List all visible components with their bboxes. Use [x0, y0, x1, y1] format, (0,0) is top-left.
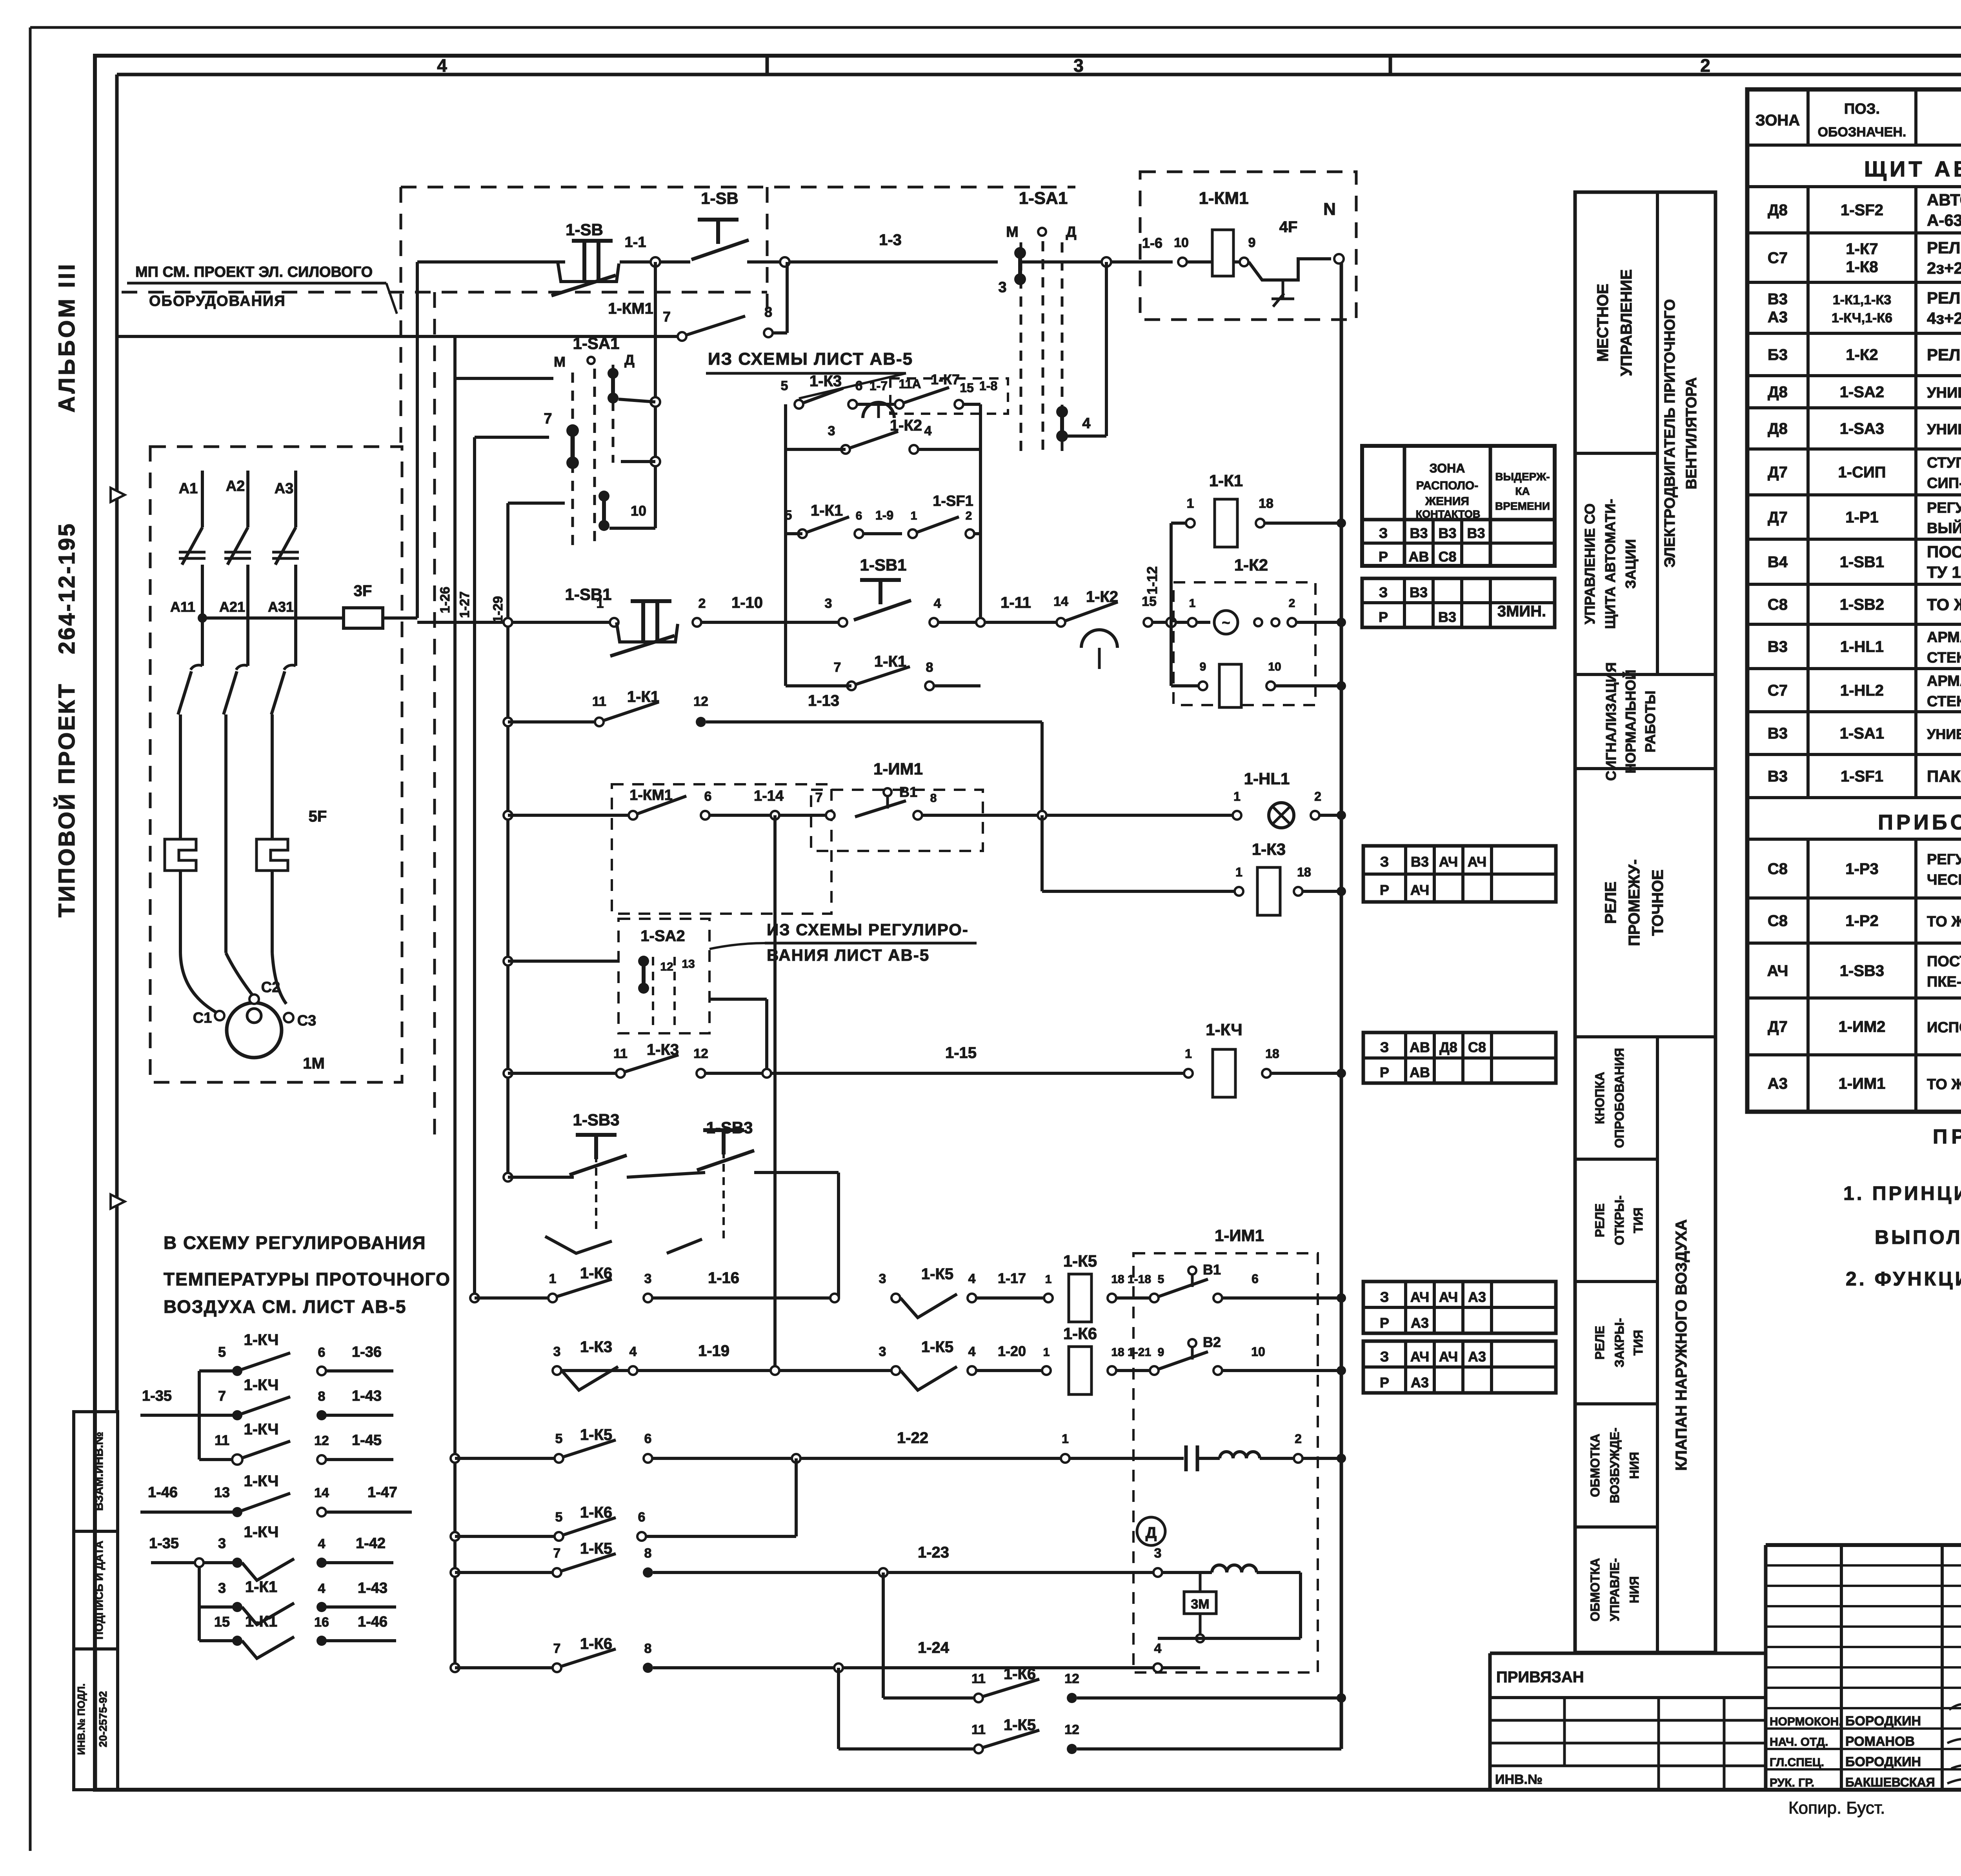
svg-text:3: 3 [553, 1344, 561, 1359]
svg-text:10: 10 [1251, 1345, 1265, 1359]
svg-text:В СХЕМУ РЕГУЛИРОВАНИЯ: В СХЕМУ РЕГУЛИРОВАНИЯ [164, 1232, 426, 1253]
svg-text:С7: С7 [1768, 682, 1788, 699]
svg-text:ЗОНА: ЗОНА [1430, 461, 1465, 475]
svg-text:7: 7 [815, 790, 823, 805]
svg-text:ТО ЖЕ, ПКЕ-112-1УЗ ТУ 16.526: ТО ЖЕ, ПКЕ-112-1УЗ ТУ 16.526.216-71 [1927, 595, 1961, 614]
wire rung 1-19 [557, 1369, 896, 1372]
izm grid bottom-left of title block [1490, 1719, 1766, 1722]
svg-text:1-SB: 1-SB [566, 220, 603, 239]
svg-text:3: 3 [825, 596, 832, 611]
wire 1-24 [653, 1666, 1158, 1669]
node [504, 957, 512, 965]
svg-text:1-КЧ: 1-КЧ [244, 1376, 278, 1394]
svg-text:8: 8 [926, 660, 933, 675]
svg-text:1: 1 [1233, 789, 1241, 803]
svg-text:СИГНАЛИЗАЦИЯ: СИГНАЛИЗАЦИЯ [1603, 662, 1619, 781]
svg-text:2: 2 [966, 509, 972, 522]
svg-text:1-К2: 1-К2 [1846, 346, 1878, 364]
svg-text:Б3: Б3 [1768, 346, 1788, 364]
svg-text:КНОПКА: КНОПКА [1593, 1072, 1607, 1124]
svg-text:В3: В3 [1768, 291, 1788, 308]
svg-text:1: 1 [1045, 1273, 1052, 1286]
svg-text:15: 15 [1142, 594, 1157, 609]
svg-text:РАСПОЛО-: РАСПОЛО- [1416, 479, 1478, 492]
svg-text:1-23: 1-23 [918, 1544, 949, 1561]
svg-text:АРМАТУРА СИГНАЛЬНОЙ ЛАМПЫ С ЗЕ: АРМАТУРА СИГНАЛЬНОЙ ЛАМПЫ С ЗЕЛЕНЫМ [1927, 628, 1961, 646]
svg-text:1: 1 [1043, 1346, 1050, 1359]
svg-text:1-17: 1-17 [998, 1270, 1026, 1286]
node [834, 1663, 843, 1672]
svg-text:РУК. ГР.: РУК. ГР. [1770, 1776, 1814, 1789]
svg-text:3: 3 [879, 1271, 886, 1286]
svg-text:1-29: 1-29 [491, 596, 506, 623]
wire 1-13 [706, 720, 1042, 723]
svg-text:7: 7 [218, 1388, 226, 1404]
svg-text:9: 9 [1200, 660, 1206, 673]
svg-text:N: N [1323, 200, 1336, 219]
node [830, 1294, 839, 1302]
svg-text:7: 7 [834, 660, 841, 675]
svg-text:МЕСТНОЕ: МЕСТНОЕ [1594, 284, 1612, 362]
svg-text:1-42: 1-42 [356, 1535, 386, 1552]
svg-text:1-HL2: 1-HL2 [1840, 682, 1884, 699]
svg-text:4: 4 [968, 1271, 976, 1286]
svg-text:1-СИП: 1-СИП [1838, 464, 1886, 481]
band cell Mestnoye upravleniye [1575, 452, 1657, 455]
svg-text:УПРАВЛЕ-: УПРАВЛЕ- [1608, 1558, 1622, 1621]
disconnect contacts below A11 A21 A31 [201, 601, 204, 666]
riser from rung1 node [654, 262, 657, 528]
node [1337, 1454, 1346, 1463]
fuse 3F [202, 616, 344, 620]
svg-text:1-Р3: 1-Р3 [1845, 860, 1879, 878]
riser [1041, 815, 1044, 891]
junction [651, 397, 660, 407]
motor terminal C1 [215, 1011, 224, 1020]
bus 1-27 [473, 437, 476, 1298]
svg-text:РЕГУЛЯТОР ТЕМПЕРАТУРЫ ПОЛУПРОВ: РЕГУЛЯТОР ТЕМПЕРАТУРЫ ПОЛУПРОВОДНИКО- [1927, 500, 1961, 516]
svg-text:ВОЗДУХА СМ. ЛИСТ АВ-5: ВОЗДУХА СМ. ЛИСТ АВ-5 [164, 1296, 406, 1317]
svg-text:ВЕНТИЛЯТОРА: ВЕНТИЛЯТОРА [1683, 377, 1700, 489]
svg-text:ВЫДЕРЖ-: ВЫДЕРЖ- [1495, 471, 1550, 483]
margin triangle mark B [111, 488, 125, 502]
svg-text:ИНВ.№ ПОДЛ.: ИНВ.№ ПОДЛ. [75, 1683, 87, 1755]
phase wire A2 [246, 471, 249, 527]
svg-text:5: 5 [781, 378, 788, 393]
svg-text:1-7: 1-7 [870, 379, 888, 393]
svg-text:5: 5 [555, 1510, 563, 1525]
svg-text:9: 9 [1248, 235, 1256, 250]
svg-text:1-SF1: 1-SF1 [933, 493, 973, 509]
power circuit dashed enclosure [150, 447, 402, 1082]
lower coil 9-10 in 1-K2 box [1171, 684, 1203, 687]
node [1196, 1634, 1204, 1642]
svg-text:ВОЗБУЖДЕ-: ВОЗБУЖДЕ- [1608, 1427, 1622, 1503]
svg-text:1-К3: 1-К3 [810, 373, 842, 390]
band cell Obmotka vozbuzhdeniya [1575, 1525, 1657, 1529]
svg-text:АЧ: АЧ [1410, 1289, 1430, 1305]
svg-text:12: 12 [660, 960, 673, 973]
wire stub lower [508, 502, 565, 505]
svg-text:ПРИМЕЧАНИЯ: ПРИМЕЧАНИЯ [1933, 1125, 1961, 1148]
svg-text:1-ИМ1: 1-ИМ1 [873, 760, 923, 778]
svg-text:1-20: 1-20 [998, 1343, 1026, 1359]
svg-text:ВАНИЯ ЛИСТ АВ-5: ВАНИЯ ЛИСТ АВ-5 [767, 946, 930, 964]
svg-text:1-К6: 1-К6 [580, 1504, 612, 1521]
svg-text:1-SB1: 1-SB1 [565, 585, 611, 604]
riser to HL1 rung [1041, 722, 1044, 815]
svg-text:РЕЛЕ: РЕЛЕ [1593, 1203, 1607, 1237]
node [1102, 257, 1111, 267]
zone table 1-K6 [1363, 1341, 1556, 1393]
dashed box 1-IM1 tall (actuator) [1133, 1253, 1318, 1672]
svg-text:1-К7: 1-К7 [1846, 240, 1878, 258]
svg-text:БОРОДКИН: БОРОДКИН [1845, 1714, 1921, 1729]
svg-text:8: 8 [764, 304, 772, 320]
band cell Knopka oprobovaniya [1575, 1158, 1657, 1161]
svg-text:1-46: 1-46 [358, 1614, 387, 1630]
svg-text:1-19: 1-19 [698, 1342, 729, 1360]
coil 1-K4 [1213, 1049, 1235, 1097]
svg-text:СТЕКЛОМ АС-220 ~220В: СТЕКЛОМ АС-220 ~220В [1927, 693, 1961, 710]
band cell Rele zakrytiya [1575, 1402, 1657, 1405]
1-SA1 closed position dots D lower [1056, 406, 1068, 418]
svg-text:А3: А3 [275, 480, 294, 497]
svg-text:С8: С8 [1768, 913, 1788, 930]
svg-text:1-К3: 1-К3 [580, 1338, 612, 1356]
svg-text:С1: С1 [193, 1010, 212, 1026]
1-SA1 dots bottom [598, 491, 609, 502]
svg-text:7: 7 [663, 309, 671, 325]
motor terminal C2 [249, 994, 259, 1004]
svg-text:12: 12 [693, 1046, 708, 1061]
node [1337, 618, 1346, 627]
svg-text:1-К2: 1-К2 [1234, 556, 1268, 574]
phase bus node [198, 613, 207, 623]
svg-text:Д: Д [1066, 224, 1076, 240]
svg-text:В3: В3 [1410, 584, 1428, 600]
svg-text:8: 8 [644, 1641, 652, 1656]
svg-text:Р: Р [1379, 609, 1388, 625]
svg-text:В3: В3 [1768, 725, 1788, 742]
svg-text:1-36: 1-36 [352, 1344, 382, 1360]
svg-text:З: З [1379, 584, 1388, 600]
panel boundary dashed vertical [433, 292, 436, 1137]
wire 1-9 [864, 532, 902, 535]
wire rung2 from border [117, 335, 682, 338]
svg-text:1-КМ1: 1-КМ1 [608, 300, 653, 317]
svg-text:АРМАТУРА СИГНАЛЬНОЙ ЛАМПЫ С КР: АРМАТУРА СИГНАЛЬНОЙ ЛАМПЫ С КРАСНЫМ [1927, 672, 1961, 689]
svg-text:1-КЧ: 1-КЧ [244, 1421, 278, 1438]
node [1038, 811, 1046, 820]
svg-text:3: 3 [218, 1535, 226, 1551]
node rung1-b [780, 257, 789, 267]
svg-text:БОРОДКИН: БОРОДКИН [1845, 1754, 1921, 1769]
left rail of parallel group [784, 404, 787, 686]
motor 1M [227, 1003, 282, 1058]
svg-text:1-К1: 1-К1 [874, 653, 906, 670]
wire stub M [455, 377, 553, 380]
svg-text:5: 5 [785, 508, 792, 523]
svg-text:1-22: 1-22 [897, 1429, 928, 1447]
svg-text:УНИВЕРСАЛЬНЫЙ ПЕРЕКЛЮЧАТЕЛЬ УП: УНИВЕРСАЛЬНЫЙ ПЕРЕКЛЮЧАТЕЛЬ УП5311-А225 [1927, 420, 1961, 438]
wire [1153, 621, 1210, 624]
svg-text:ТИЯ: ТИЯ [1631, 1330, 1645, 1356]
svg-text:3: 3 [879, 1344, 886, 1359]
node [771, 811, 779, 820]
lower contacts of SB3 [545, 1236, 612, 1253]
svg-text:~: ~ [1222, 614, 1230, 631]
svg-text:УНИВЕРСАЛЬНЫЙ ПЕРЕКЛЮЧАТЕЛЬ УП: УНИВЕРСАЛЬНЫЙ ПЕРЕКЛЮЧАТЕЛЬ УП5311-С225 [1927, 384, 1961, 401]
title block frame [1766, 1543, 1961, 1547]
svg-text:ИСПОЛНИТЕЛЬНЫЙ МЕХАНИЗМ ПР-1: ИСПОЛНИТЕЛЬНЫЙ МЕХАНИЗМ ПР-1М [1927, 1018, 1961, 1036]
svg-text:1-3: 1-3 [879, 231, 902, 249]
svg-text:1-К1: 1-К1 [245, 1613, 277, 1630]
svg-text:А3: А3 [1411, 1315, 1429, 1331]
wire rung 1-13 left [508, 720, 599, 723]
svg-text:А3: А3 [1768, 309, 1788, 326]
svg-text:З: З [1380, 1349, 1389, 1365]
svg-text:БАКШЕВСКАЯ: БАКШЕВСКАЯ [1845, 1775, 1935, 1789]
svg-text:2: 2 [699, 596, 706, 611]
svg-text:1-24: 1-24 [918, 1639, 950, 1656]
node [1337, 1693, 1346, 1703]
svg-text:УПРАВЛЕНИЕ: УПРАВЛЕНИЕ [1618, 269, 1635, 376]
svg-text:1-35: 1-35 [149, 1535, 179, 1552]
margin stamp boxes (Vzam.inv / Podpis i data / Inv.N podl.) [74, 1412, 118, 1790]
svg-text:В4: В4 [1768, 554, 1788, 571]
svg-text:ПОСТ УПРАВЛЕНИЯ ПКЕ-112-2УЗ: ПОСТ УПРАВЛЕНИЯ ПКЕ-112-2УЗ [1927, 543, 1961, 561]
contact-zone legend table for relay 1-K1 [1362, 446, 1555, 566]
svg-text:ПРИВЯЗАН: ПРИВЯЗАН [1496, 1669, 1584, 1686]
svg-text:1-11: 1-11 [1001, 594, 1031, 611]
svg-text:ВЗАМ.ИНВ.№: ВЗАМ.ИНВ.№ [93, 1432, 106, 1511]
ruler tick 3-2 [1389, 56, 1392, 75]
svg-text:1-К5: 1-К5 [921, 1265, 953, 1283]
svg-text:З: З [1379, 525, 1388, 541]
svg-text:РЕЛЕ ПРОМЕЖУТОЧНОЕ, ~220В: РЕЛЕ ПРОМЕЖУТОЧНОЕ, ~220В [1927, 238, 1961, 257]
wire rung 1-10 left [417, 621, 614, 624]
svg-text:3МИН.: 3МИН. [1497, 603, 1546, 620]
svg-text:1-ИМ1: 1-ИМ1 [1215, 1226, 1264, 1245]
coil 1-K3 [1257, 867, 1280, 915]
svg-text:НАЧ. ОТД.: НАЧ. ОТД. [1770, 1736, 1828, 1749]
svg-text:ПРОМЕЖУ-: ПРОМЕЖУ- [1626, 859, 1643, 946]
svg-text:1-21: 1-21 [1128, 1346, 1151, 1359]
svg-text:1-НL1: 1-НL1 [1244, 769, 1290, 788]
svg-text:АЧ: АЧ [1439, 854, 1458, 870]
wire 1-23 [653, 1571, 1158, 1574]
svg-text:3: 3 [644, 1271, 652, 1286]
svg-text:18: 18 [1259, 496, 1273, 511]
svg-text:8: 8 [644, 1546, 652, 1561]
riser from 1-24 [837, 1668, 840, 1749]
svg-text:10: 10 [631, 503, 646, 519]
contact 1-K2 timed closing 14-15 [1057, 618, 1065, 627]
svg-text:1-К1: 1-К1 [245, 1578, 277, 1596]
svg-text:1-26: 1-26 [438, 587, 453, 613]
node [762, 1069, 771, 1078]
wire 1-3 [789, 260, 998, 264]
svg-text:15: 15 [960, 381, 974, 395]
svg-text:1-К8: 1-К8 [1846, 258, 1878, 276]
svg-text:АЧ: АЧ [1439, 1349, 1458, 1365]
svg-text:264-12-195: 264-12-195 [54, 522, 80, 654]
node [1337, 887, 1346, 896]
svg-text:1-SA1: 1-SA1 [1840, 725, 1884, 742]
svg-text:ОТКРЫ-: ОТКРЫ- [1612, 1195, 1626, 1245]
svg-text:КА: КА [1515, 485, 1530, 497]
svg-text:ОБМОТКА: ОБМОТКА [1588, 1558, 1602, 1622]
riser down from 1-14 [773, 815, 777, 1374]
svg-text:12: 12 [693, 694, 708, 709]
wire up to rung1 [786, 262, 789, 333]
svg-text:1-SB: 1-SB [701, 189, 739, 207]
svg-text:4: 4 [318, 1536, 326, 1551]
svg-text:7: 7 [553, 1546, 561, 1561]
svg-text:ТО ЖЕ, МЭО-4/63: ТО ЖЕ, МЭО-4/63 [1927, 1076, 1961, 1093]
svg-text:С8: С8 [1438, 549, 1456, 565]
svg-text:ГЛ.СПЕЦ.: ГЛ.СПЕЦ. [1770, 1756, 1824, 1769]
wire 1-21 [1117, 1369, 1154, 1372]
svg-text:2з+2Р КОНТАКТА, ПЭ-21-8УЗ: 2з+2Р КОНТАКТА, ПЭ-21-8УЗ [1927, 259, 1961, 277]
svg-text:РЕГУЛЯТОР ТЕМПЕРАТУРЫ ДИЛАТО: РЕГУЛЯТОР ТЕМПЕРАТУРЫ ДИЛАТОМЕТРИ- [1927, 851, 1961, 868]
svg-text:20-2575-92: 20-2575-92 [97, 1691, 109, 1747]
svg-text:ЧЕСКИЙ ТУДЭ-4 0-250°С: ЧЕСКИЙ ТУДЭ-4 0-250°С [1927, 871, 1961, 888]
aux chart left bus upper [198, 1371, 201, 1460]
svg-text:8: 8 [318, 1389, 326, 1404]
svg-text:4з+2ПЕР. КОНТАКТА, ПЭ-21-4УЗ: 4з+2ПЕР. КОНТАКТА, ПЭ-21-4УЗ [1927, 309, 1961, 327]
terminal 10 [1178, 258, 1187, 266]
svg-text:А-63М ~220В Уp=1,6А: А-63М ~220В Уp=1,6А [1927, 211, 1961, 229]
svg-text:4: 4 [968, 1344, 976, 1359]
aux chart left bus lower [198, 1563, 201, 1641]
coil 1-K4 [1184, 1069, 1193, 1078]
svg-text:3: 3 [1154, 1546, 1162, 1561]
svg-text:УПРАВЛЕНИЕ СО: УПРАВЛЕНИЕ СО [1582, 504, 1598, 624]
phase wire A3 [294, 471, 297, 527]
svg-text:11: 11 [592, 694, 606, 709]
svg-text:ЗОНА: ЗОНА [1755, 112, 1800, 129]
node [504, 718, 512, 726]
dashed box around 1-K7 [890, 378, 1008, 414]
svg-text:В3: В3 [1768, 638, 1788, 656]
svg-text:ИЗ СХЕМЫ ЛИСТ АВ-5: ИЗ СХЕМЫ ЛИСТ АВ-5 [708, 349, 913, 369]
svg-text:1-SA3: 1-SA3 [1840, 420, 1884, 438]
node [504, 811, 512, 820]
svg-text:1-SF2: 1-SF2 [1841, 202, 1883, 219]
wire 1-8 [964, 403, 980, 406]
svg-text:1-12: 1-12 [1144, 566, 1160, 594]
wire from SA2 down [765, 999, 768, 1073]
wire 1-6 [1111, 260, 1173, 264]
svg-text:В3: В3 [1438, 609, 1456, 625]
svg-text:М: М [1006, 224, 1019, 240]
svg-text:18: 18 [1111, 1346, 1124, 1359]
outer sheet border [30, 26, 1961, 29]
svg-text:1-К5: 1-К5 [580, 1540, 612, 1557]
svg-text:1-К1,1-К3: 1-К1,1-К3 [1833, 293, 1891, 307]
svg-text:ТИПОВОЙ ПРОЕКТ: ТИПОВОЙ ПРОЕКТ [54, 683, 80, 918]
svg-text:1-Р2: 1-Р2 [1845, 913, 1879, 930]
zone table 1-K2 [1362, 578, 1555, 627]
svg-text:6: 6 [704, 789, 712, 804]
svg-text:НОРМОКОН.: НОРМОКОН. [1770, 1715, 1842, 1728]
svg-text:АВ: АВ [1409, 549, 1429, 565]
svg-text:1-КЧ: 1-КЧ [244, 1331, 278, 1349]
branch from D dots [1068, 434, 1106, 438]
svg-text:1: 1 [1189, 597, 1196, 610]
svg-text:1: 1 [911, 509, 917, 522]
svg-text:Р: Р [1380, 1064, 1389, 1080]
node [451, 1454, 459, 1463]
svg-text:А3: А3 [1411, 1374, 1429, 1391]
coil 1-K1 rung [1171, 522, 1190, 525]
svg-text:1-1: 1-1 [625, 234, 646, 251]
svg-text:АЧ: АЧ [1767, 962, 1788, 980]
svg-text:АЛЬБОМ III: АЛЬБОМ III [54, 262, 80, 413]
svg-text:2: 2 [1314, 789, 1321, 803]
wire 1-17 [977, 1296, 1048, 1300]
svg-text:11: 11 [971, 1722, 986, 1737]
svg-text:5: 5 [218, 1344, 226, 1360]
mech link dashed [595, 1141, 597, 1231]
svg-text:АЧ: АЧ [1410, 882, 1430, 898]
svg-text:МП СМ. ПРОЕКТ ЭЛ. СИЛОВОГО: МП СМ. ПРОЕКТ ЭЛ. СИЛОВОГО [135, 264, 373, 280]
wire to KM1 group [1020, 260, 1106, 264]
svg-text:В3: В3 [1768, 768, 1788, 785]
svg-text:М: М [554, 354, 566, 370]
svg-text:1-SB2: 1-SB2 [1840, 596, 1884, 613]
wire [609, 527, 655, 530]
svg-text:1-К6: 1-К6 [580, 1635, 612, 1652]
svg-text:7: 7 [544, 411, 552, 427]
svg-text:1-SB1: 1-SB1 [1840, 554, 1884, 571]
svg-text:З: З [1380, 1289, 1389, 1305]
riser [837, 1172, 840, 1298]
dashed box around 1-KM1 aux [612, 784, 831, 914]
svg-text:ЗАЦИИ: ЗАЦИИ [1623, 539, 1639, 589]
svg-text:1-КМ1: 1-КМ1 [629, 787, 673, 803]
svg-text:11: 11 [215, 1432, 229, 1448]
svg-text:5: 5 [555, 1431, 563, 1446]
band cell Upravleniye so shchita avtomatizatsii [1575, 673, 1715, 676]
svg-text:НОРМАЛЬНОЙ: НОРМАЛЬНОЙ [1622, 670, 1639, 774]
coil 1-K1 [1215, 499, 1237, 547]
svg-text:СИП-01УМ: СИП-01УМ [1927, 475, 1961, 492]
svg-text:ОБМОТКА: ОБМОТКА [1588, 1434, 1602, 1497]
wire 1-10 [702, 621, 843, 624]
svg-text:4: 4 [629, 1344, 637, 1359]
svg-text:6: 6 [318, 1345, 326, 1360]
svg-text:1-К1: 1-К1 [1209, 471, 1243, 490]
svg-text:7: 7 [553, 1641, 561, 1656]
svg-text:А2: А2 [226, 478, 245, 494]
bus 1-29 [506, 503, 509, 1177]
node [771, 1366, 779, 1375]
svg-text:1-К5: 1-К5 [580, 1426, 612, 1443]
svg-text:С8: С8 [1768, 860, 1788, 878]
svg-text:1: 1 [1235, 865, 1242, 879]
svg-text:В2: В2 [1203, 1334, 1221, 1350]
wire stub 7 [475, 436, 549, 439]
node [1337, 681, 1346, 691]
svg-text:А3: А3 [1468, 1289, 1486, 1305]
svg-text:1-46: 1-46 [148, 1484, 178, 1501]
svg-text:1: 1 [1185, 1047, 1192, 1061]
svg-text:1-КЧ: 1-КЧ [244, 1472, 278, 1490]
limit switch V1 inside 1-IM1 [826, 811, 835, 820]
